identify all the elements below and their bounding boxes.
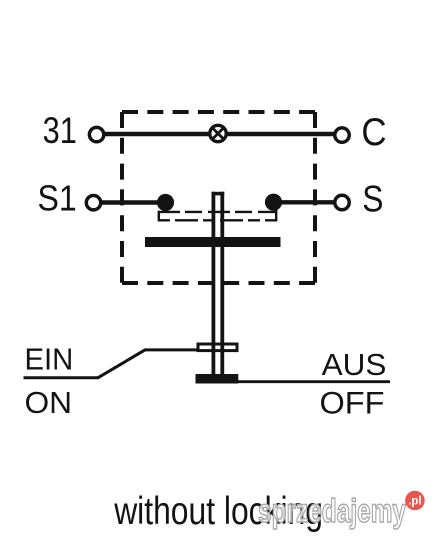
svg-text:.pl: .pl [408,496,421,508]
svg-text:EIN: EIN [25,343,74,377]
svg-text:S1: S1 [38,178,77,219]
svg-text:ON: ON [25,385,73,420]
svg-text:sprzedajemy: sprzedajemy [258,492,406,529]
svg-text:31: 31 [43,110,77,151]
svg-text:OFF: OFF [320,384,385,420]
svg-text:AUS: AUS [322,348,387,382]
svg-text:S: S [362,179,383,220]
svg-text:C: C [361,111,386,154]
